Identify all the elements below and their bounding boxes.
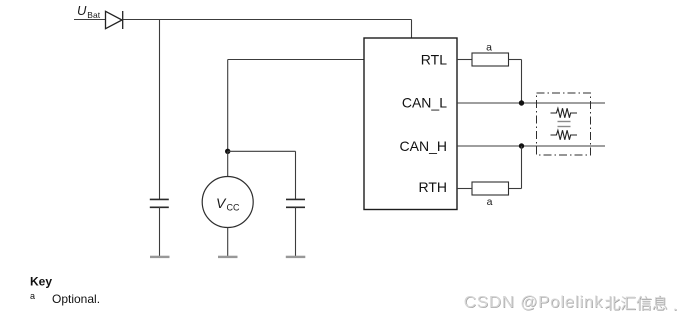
wire: VCC pin from transceiver left to corner — [228, 59, 364, 61]
svg-text:a: a — [487, 196, 493, 208]
resistor (termination, lower) — [551, 130, 578, 139]
svg-text:CAN_L: CAN_L — [402, 95, 447, 111]
transceiver block U1 — [364, 38, 457, 210]
wire: drop from top rail to C1 — [159, 20, 161, 200]
wire: CAN_H bus line — [457, 145, 605, 147]
capacitor C2 — [286, 199, 305, 207]
wire: RTL pin stub — [457, 59, 472, 61]
node CAN_H junction — [519, 143, 524, 148]
svg-text:Optional.: Optional. — [52, 292, 100, 306]
wire: top rail from diode cathode to x=411 — [123, 19, 412, 21]
ground (right capacitor) — [286, 256, 306, 258]
wire: corner down to VCC junction — [227, 60, 229, 152]
svg-text:CAN_H: CAN_H — [400, 138, 447, 154]
diode D1 — [106, 11, 123, 29]
ground (VCC source) — [218, 256, 238, 258]
wire: top rail drop into transceiver top — [411, 20, 413, 39]
svg-text:U: U — [77, 3, 87, 18]
wire: RTL resistor to CAN_L — [509, 59, 522, 61]
resistor (termination, upper) — [551, 108, 578, 117]
svg-text:a: a — [486, 41, 492, 53]
capacitor (termination centre tap) — [558, 122, 571, 127]
resistor RTL (optional) — [472, 53, 509, 66]
wire: CAN_L bus line — [457, 102, 605, 104]
wire: CAN_H down to RTH resistor — [521, 146, 523, 189]
voltage source VCC — [202, 177, 253, 228]
wire: junction to C2 branch — [228, 150, 296, 152]
wire: C2 to ground — [295, 207, 297, 256]
wire: drop to C2 — [295, 151, 297, 199]
svg-text:a: a — [30, 291, 35, 301]
optional termination network box (dash-dot) — [537, 93, 591, 155]
svg-text:Key: Key — [30, 275, 52, 289]
ground (left) — [150, 256, 170, 258]
svg-text:CC: CC — [227, 203, 240, 213]
svg-text:RTH: RTH — [418, 179, 447, 195]
node CAN_L junction — [519, 100, 524, 105]
wire: VCC source to ground — [227, 228, 229, 257]
resistor RTH (optional) — [472, 182, 509, 195]
wire: battery feed from left to diode anode — [74, 19, 106, 21]
capacitor C1 — [150, 199, 169, 207]
wire: C1 to ground — [159, 207, 161, 256]
wire: junction to VCC source — [227, 151, 229, 176]
svg-text:RTL: RTL — [421, 52, 447, 68]
wire: RTH pin stub — [457, 188, 472, 190]
node VCC junction — [225, 149, 230, 154]
svg-text:Bat: Bat — [87, 10, 100, 20]
